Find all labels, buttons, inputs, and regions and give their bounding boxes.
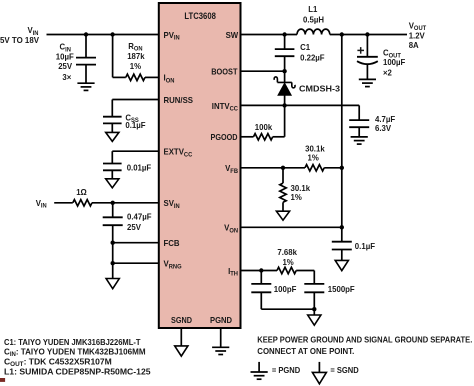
wire ITH stub [241, 270, 278, 272]
capacitor C-SVIN 0.47uF [103, 217, 123, 225]
wire COUT top lead [366, 35, 368, 57]
svg-text:SGND: SGND [171, 315, 192, 325]
wire VON stub [241, 226, 342, 228]
svg-text:100µF: 100µF [383, 57, 405, 67]
svg-text:0.1µF: 0.1µF [125, 120, 145, 130]
svg-text:3×: 3× [62, 72, 71, 82]
junction ITH junction [259, 268, 263, 272]
junction BOOST junction [282, 69, 286, 73]
wire C-INTVCC bottom lead [358, 127, 360, 137]
capacitor C-INTVCC 4.7uF [349, 120, 369, 127]
wire CSS top lead [111, 100, 113, 117]
svg-text:RUN/SS: RUN/SS [164, 95, 194, 105]
wire R-ITH right lead [296, 270, 314, 272]
wire COUT bottom lead [366, 65, 368, 80]
capacitor C-VON 0.1uF [332, 242, 352, 250]
svg-text:1%: 1% [282, 257, 294, 267]
wire PGOOD pullup riser [284, 105, 286, 136]
junction RON tap [110, 32, 114, 36]
junction VOUT sense junction at VFB [340, 166, 344, 170]
decorative corner mark (cropped page element) [0, 378, 5, 382]
wire SVIN chain down [112, 225, 114, 278]
junction SW-C1 junction [282, 32, 286, 36]
ground SGND below CSS [106, 132, 119, 141]
svg-text:BOOST: BOOST [211, 67, 238, 77]
svg-text:= SGND: = SGND [330, 366, 358, 375]
wire C-VON bottom lead [341, 250, 343, 261]
wire R-FB-bot top lead [282, 168, 284, 183]
capacitor C-ITH2 1500pF [304, 284, 324, 292]
wire VRNG stub [113, 262, 159, 264]
svg-text:7.68k: 7.68k [277, 247, 297, 257]
wire C-INTVCC drop [358, 105, 360, 120]
svg-text:KEEP POWER GROUND AND SIGNAL G: KEEP POWER GROUND AND SIGNAL GROUND SEPA… [257, 335, 472, 344]
svg-text:1Ω: 1Ω [76, 187, 87, 197]
wire C-EXTVCC top lead [111, 151, 113, 163]
wire PGOOD pullup lead [273, 136, 285, 138]
svg-text:0.47µF: 0.47µF [127, 212, 152, 222]
wire FCB stub [113, 242, 159, 244]
svg-text:CONNECT AT ONE POINT.: CONNECT AT ONE POINT. [257, 347, 354, 356]
svg-text:C1: C1 [300, 42, 310, 52]
wire VFB to VOUT sense [324, 167, 342, 169]
svg-text:100pF: 100pF [274, 284, 297, 294]
svg-text:PGOOD: PGOOD [211, 132, 238, 142]
wire SVIN lead to pin [92, 202, 159, 204]
wire ITH ground rail [261, 308, 314, 310]
wire C-ITH2 bottom lead [313, 292, 315, 309]
svg-text:FCB: FCB [164, 238, 180, 248]
wire C-EXTVCC bottom lead [111, 170, 113, 179]
wire SGND pin lead [180, 328, 182, 346]
resistor R-FB-top 30.1k [305, 165, 324, 171]
svg-text:CMDSH-3: CMDSH-3 [299, 83, 340, 93]
wire CIN bottom lead [85, 65, 87, 84]
junction SVIN junction [111, 201, 115, 205]
ground SGND below C-VON [335, 260, 348, 270]
resistor RON 187k [126, 74, 145, 80]
svg-text:LTC3608: LTC3608 [184, 11, 216, 21]
wire C-ITH2 drop [313, 271, 315, 284]
ground SGND below SGND pin [175, 346, 188, 356]
resistor R-ITH 7.68k [277, 267, 296, 273]
ground SGND below ITH rail [308, 315, 321, 325]
svg-text:PGND: PGND [210, 315, 232, 325]
wire SW stub [241, 34, 298, 36]
ground SGND below R-FB-bot [276, 211, 289, 220]
svg-text:8A: 8A [409, 40, 419, 50]
wire CSS bottom lead [111, 123, 113, 132]
ground PGND legend PGND symbol [251, 372, 268, 379]
resistor R-PGOOD 100k [254, 134, 273, 140]
capacitor CSS 0.1uF [103, 117, 122, 124]
wire SVIN decoupling top lead [112, 203, 114, 218]
wire R-FB-bot bottom lead [282, 202, 284, 211]
junction VON junction [340, 225, 344, 229]
capacitor C-ITH1 100pF [251, 284, 271, 292]
ground SGND below SVIN chain [106, 279, 119, 289]
wire C-ITH1 top lead [260, 271, 262, 284]
wire ITH rail ground stub [313, 309, 315, 315]
svg-text:L1: SUMIDA CDEP85NP-R50MC-125: L1: SUMIDA CDEP85NP-R50MC-125 [4, 368, 151, 377]
svg-text:187k: 187k [127, 51, 145, 61]
junction CIN tap [84, 32, 88, 36]
ground SGND legend SGND symbol [312, 372, 326, 383]
diode CMDSH-3 schottky [274, 71, 295, 105]
wire C1 bottom lead [284, 56, 286, 71]
op-amp/IC U1 LTC3608 body [159, 3, 241, 328]
wire INTVCC rail [241, 104, 360, 106]
wire C-ITH1 bottom lead [260, 292, 262, 309]
wire PGOOD stub [241, 136, 254, 138]
junction VFB junction [281, 166, 285, 170]
svg-text:0.01µF: 0.01µF [127, 163, 152, 173]
wire RON right lead [145, 76, 159, 78]
wire RUN/SS stub [112, 99, 159, 101]
junction INTVCC junction [282, 103, 286, 107]
junction FCB junction [111, 241, 115, 245]
wire CIN top lead [85, 35, 87, 58]
junction VRNG junction [111, 261, 115, 265]
ground PGND below COUT [359, 79, 376, 86]
capacitor COUT 100uF polarized [357, 57, 378, 64]
svg-text:0.5µH: 0.5µH [303, 14, 324, 24]
wire C1 top lead [284, 35, 286, 50]
wire VOUT sense vertical [341, 35, 343, 228]
label COUT plus sign [357, 47, 364, 54]
wire VFB stub [241, 167, 306, 169]
svg-text:25V: 25V [58, 61, 72, 71]
capacitor CIN 10uF [76, 58, 96, 65]
inductor L1 0.5uH [297, 29, 330, 34]
resistor R 1 Ohm [73, 200, 92, 206]
ground PGND below 4.7uF [351, 137, 368, 144]
svg-text:1%: 1% [291, 192, 303, 202]
junction COUT tap [365, 32, 369, 36]
capacitor C-EXTVCC 0.01uF [103, 164, 122, 171]
wire C-VON top lead [341, 227, 343, 241]
ground PGND below PGND pin [212, 347, 229, 354]
svg-text:100k: 100k [255, 122, 273, 132]
svg-text:C1: TAIYO YUDEN JMK316BJ226ML-: C1: TAIYO YUDEN JMK316BJ226ML-T [4, 338, 141, 347]
svg-text:SW: SW [226, 30, 239, 40]
svg-text:0.22µF: 0.22µF [300, 53, 325, 63]
wire BOOST stub [241, 70, 285, 72]
wire PGND pin lead [220, 328, 222, 347]
resistor R-FB-bot 30.1k [280, 183, 286, 202]
svg-text:1500pF: 1500pF [328, 284, 355, 294]
wire legend PGND stub [258, 362, 260, 372]
svg-text:L1: L1 [308, 4, 317, 14]
svg-text:25V: 25V [127, 222, 141, 232]
svg-text:= PGND: = PGND [272, 366, 300, 375]
ground PGND below CIN [77, 83, 94, 90]
svg-text:1%: 1% [130, 61, 142, 71]
junction VOUT sense tap [340, 32, 344, 36]
wire VIN input rail [47, 34, 159, 36]
svg-text:1%: 1% [308, 153, 320, 163]
wire legend SGND stub [318, 362, 320, 373]
wire SVIN input lead [54, 202, 73, 204]
svg-text:0.1µF: 0.1µF [355, 241, 375, 251]
wire RON left lead [113, 76, 126, 78]
wire VOUT rail [330, 34, 407, 36]
svg-text:6.3V: 6.3V [375, 123, 391, 133]
svg-text:5V TO 18V: 5V TO 18V [0, 35, 39, 45]
ground SGND below 0.01uF [106, 179, 119, 188]
svg-text:×2: ×2 [383, 68, 392, 78]
junction ITH rail junction [312, 307, 316, 311]
wire EXTVCC stub [112, 150, 159, 152]
capacitor C1 0.22uF [275, 49, 295, 56]
wire RON drop from PVIN rail [112, 35, 114, 78]
